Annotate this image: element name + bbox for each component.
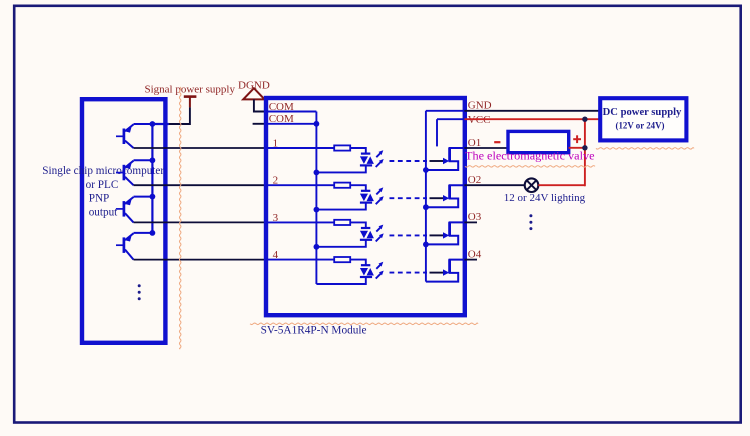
junction dot GND bus ch2 xyxy=(423,204,429,210)
PLC source block outline xyxy=(82,99,165,343)
junction dot Q1 emitter xyxy=(150,121,156,127)
junction dot valve/red rail xyxy=(582,145,587,150)
wire: Q2 collector to module input 2 xyxy=(134,184,267,186)
wire: COM pin1 horizontal xyxy=(266,111,316,113)
wire: lamp to red rail xyxy=(538,184,585,186)
gate arrow ch1 xyxy=(430,158,450,164)
svg-text:(12V or 24V): (12V or 24V) xyxy=(616,121,665,131)
minus sign xyxy=(494,141,500,143)
junction dot COM pin2 xyxy=(314,121,320,127)
svg-text:O3: O3 xyxy=(468,211,482,223)
svg-text:GND: GND xyxy=(468,100,492,112)
dashed coupling line ch4 xyxy=(390,272,428,274)
svg-text:O4: O4 xyxy=(468,248,482,260)
junction dot Q2 emitter xyxy=(150,157,156,163)
light arrows ch1 xyxy=(376,150,384,167)
wire: emitter bus vertical xyxy=(151,124,153,233)
wavy underline DC supply xyxy=(596,148,694,150)
optocoupler LED pair ch2 xyxy=(360,191,374,203)
wire: COM rail through box edge xyxy=(152,123,168,125)
wire: O2 to lamp xyxy=(464,184,524,186)
output driver ch4 xyxy=(426,259,465,281)
junction dot GND bus ch1 xyxy=(423,167,429,173)
wire: O3 stub xyxy=(464,221,477,223)
svg-text:Signal power supply: Signal power supply xyxy=(145,84,236,96)
wire: valve plus to red rail xyxy=(569,147,585,149)
wire: COM pin2 horizontal xyxy=(266,123,316,125)
gate arrow ch3 xyxy=(430,232,450,238)
dashed coupling line ch1 xyxy=(390,160,428,162)
wire: input 3 to resistor xyxy=(266,221,334,223)
transistor Q3 (PNP) xyxy=(116,197,152,223)
gate arrow ch2 xyxy=(430,195,450,201)
optocoupler LED pair ch4 xyxy=(360,265,374,277)
svg-text:O1: O1 xyxy=(468,137,481,149)
wire: Q3 collector to module input 3 xyxy=(134,221,267,223)
junction dot GND bus ch3 xyxy=(423,242,429,248)
wire: input 1 to resistor xyxy=(266,147,334,149)
wire: LED ch4 return to COM bus xyxy=(316,277,365,284)
wire: LED ch3 return to COM bus xyxy=(316,240,365,247)
junction dot COM return ch2 xyxy=(314,207,320,213)
signal power supply tap symbol xyxy=(184,97,197,108)
wire: input 4 to resistor xyxy=(266,259,334,261)
wire: Q1 collector to module input 1 xyxy=(134,147,267,149)
junction dot Q4 emitter xyxy=(150,230,156,236)
wire: DGND to COM pin 1 xyxy=(254,99,266,111)
svg-text:SV-5A1R4P-N Module: SV-5A1R4P-N Module xyxy=(261,325,367,337)
wire: red rail vertical xyxy=(584,119,586,186)
output driver ch2 xyxy=(426,185,465,207)
DGND ground symbol (triangle) xyxy=(243,88,264,99)
wire: VCC to DC supply (red) xyxy=(464,118,599,120)
wire: input 2 to resistor xyxy=(266,184,334,186)
lamp symbol xyxy=(525,178,539,192)
wire: COM pin 2 stub xyxy=(253,123,266,125)
svg-text:O2: O2 xyxy=(468,174,481,186)
svg-text:The electromagnetic valve: The electromagnetic valve xyxy=(465,151,595,163)
light arrows ch2 xyxy=(376,187,384,204)
light arrows ch3 xyxy=(376,225,384,242)
wire: GND bus horizontal xyxy=(426,110,465,112)
wire: GND to DC supply xyxy=(464,110,599,112)
transistor Q4 (PNP) xyxy=(116,233,152,260)
wire: COM bus vertical xyxy=(315,112,317,285)
light arrows ch4 xyxy=(376,262,384,279)
resistor R4 xyxy=(334,257,350,262)
electromagnetic valve box xyxy=(508,131,569,152)
transistor Q1 (PNP) xyxy=(116,124,169,148)
wire: GND bus vertical xyxy=(425,111,427,282)
wire: Q4 collector to module input 4 xyxy=(134,259,267,261)
ellipsis dots right xyxy=(529,214,532,230)
junction dot VCC/red rail xyxy=(582,117,587,122)
wavy underline module name xyxy=(250,323,478,325)
optocoupler LED pair ch1 xyxy=(360,154,374,166)
wire: VCC stub vertical xyxy=(436,119,438,146)
wire: LED ch2 return to COM bus xyxy=(316,203,365,210)
wire: LED ch1 return to COM bus xyxy=(316,165,365,172)
dashed coupling line ch3 xyxy=(390,234,428,236)
wavy underline valve label xyxy=(465,166,595,168)
junction dot COM return ch1 xyxy=(314,170,320,176)
junction dot COM return ch3 xyxy=(314,244,320,250)
dashed coupling line ch2 xyxy=(390,197,428,199)
wire: resistor R4 to LED xyxy=(350,260,366,266)
junction dot Q3 emitter xyxy=(150,194,156,200)
output driver ch3 xyxy=(426,222,465,244)
wire: VCC pin horizontal xyxy=(437,118,464,120)
output driver ch1 xyxy=(426,148,465,170)
resistor R1 xyxy=(334,145,350,150)
resistor R3 xyxy=(334,220,350,225)
wire: resistor R3 to LED xyxy=(350,222,366,228)
wire: O4 stub xyxy=(464,259,477,261)
wire: O1 to valve xyxy=(464,147,508,149)
module outline SV-5A1R4P-N xyxy=(266,98,465,315)
optocoupler LED pair ch3 xyxy=(360,228,374,240)
svg-text:DC power supply: DC power supply xyxy=(603,107,682,118)
transistor Q2 (PNP) xyxy=(116,160,152,185)
wire: resistor R2 to LED xyxy=(350,185,366,191)
svg-text:12 or 24V lighting: 12 or 24V lighting xyxy=(504,192,586,204)
wire: tap down to COM rail xyxy=(169,107,190,124)
DC power supply box xyxy=(600,98,686,140)
wire: resistor R1 to LED xyxy=(350,148,366,154)
ellipsis dots left box xyxy=(138,284,141,300)
vertical wavy marker line xyxy=(179,87,181,349)
resistor R2 xyxy=(334,183,350,188)
plus sign xyxy=(573,135,581,143)
gate arrow ch4 xyxy=(430,269,450,275)
